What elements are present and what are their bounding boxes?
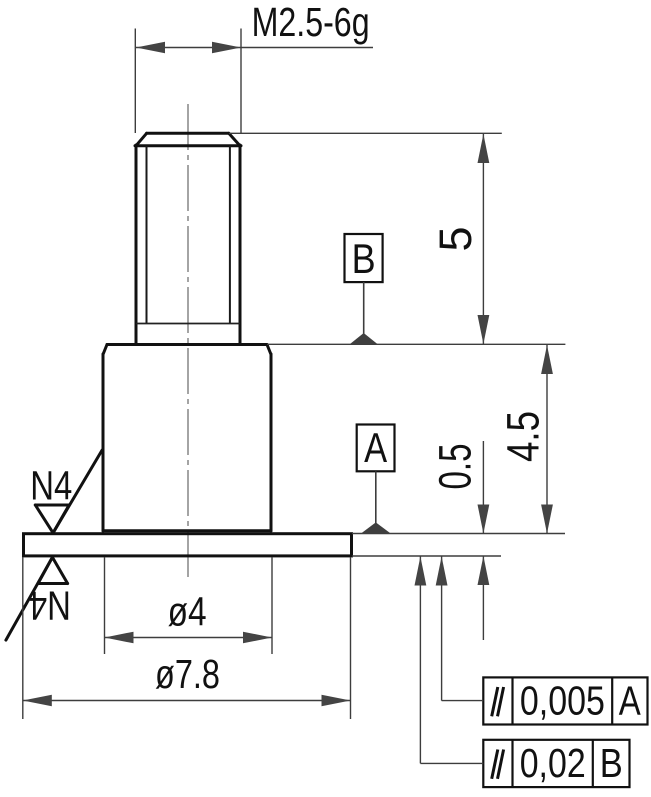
svg-text:ø7.8: ø7.8 bbox=[155, 651, 220, 697]
svg-text:N4: N4 bbox=[30, 462, 72, 508]
tolerance frame parallel 0,02 B bbox=[415, 557, 630, 788]
dimension 5 bbox=[430, 134, 489, 344]
svg-text:B: B bbox=[352, 235, 376, 282]
svg-text:N4: N4 bbox=[29, 582, 71, 628]
dimension dia4 bbox=[105, 557, 273, 654]
thread minor diameter lines bbox=[147, 146, 230, 324]
extension line body top right bbox=[267, 343, 565, 345]
extension line stud top right bbox=[229, 132, 502, 134]
datum A bbox=[357, 424, 395, 533]
svg-text:4.5: 4.5 bbox=[497, 411, 548, 462]
svg-text:B: B bbox=[600, 740, 623, 786]
svg-text:0,02: 0,02 bbox=[520, 740, 586, 786]
svg-text:M2.5-6g: M2.5-6g bbox=[252, 0, 370, 45]
thread stud outline bbox=[135, 133, 241, 344]
extension line flange bottom right bbox=[352, 555, 501, 557]
svg-text:0.5: 0.5 bbox=[430, 444, 481, 490]
dimension 0.5 bbox=[430, 441, 490, 640]
dimension dia7.8 bbox=[23, 557, 351, 719]
svg-text:A: A bbox=[364, 424, 387, 471]
flange outline bbox=[24, 534, 352, 556]
svg-text:5: 5 bbox=[430, 226, 481, 251]
datum B bbox=[345, 234, 383, 344]
thread runout line bbox=[136, 323, 240, 325]
svg-text:A: A bbox=[619, 677, 642, 723]
dimension M2.5-6g bbox=[135, 0, 373, 133]
surface finish N4 bottom bbox=[6, 557, 71, 640]
svg-text:0,005: 0,005 bbox=[520, 677, 605, 723]
centerline bbox=[187, 104, 189, 581]
body outline bbox=[103, 345, 271, 532]
dimension 4.5 bbox=[497, 345, 553, 534]
svg-text:ø4: ø4 bbox=[168, 589, 207, 635]
extension line flange top right bbox=[352, 533, 565, 535]
surface finish N4 top bbox=[30, 450, 102, 533]
tolerance frame parallel 0,005 A bbox=[436, 557, 648, 725]
